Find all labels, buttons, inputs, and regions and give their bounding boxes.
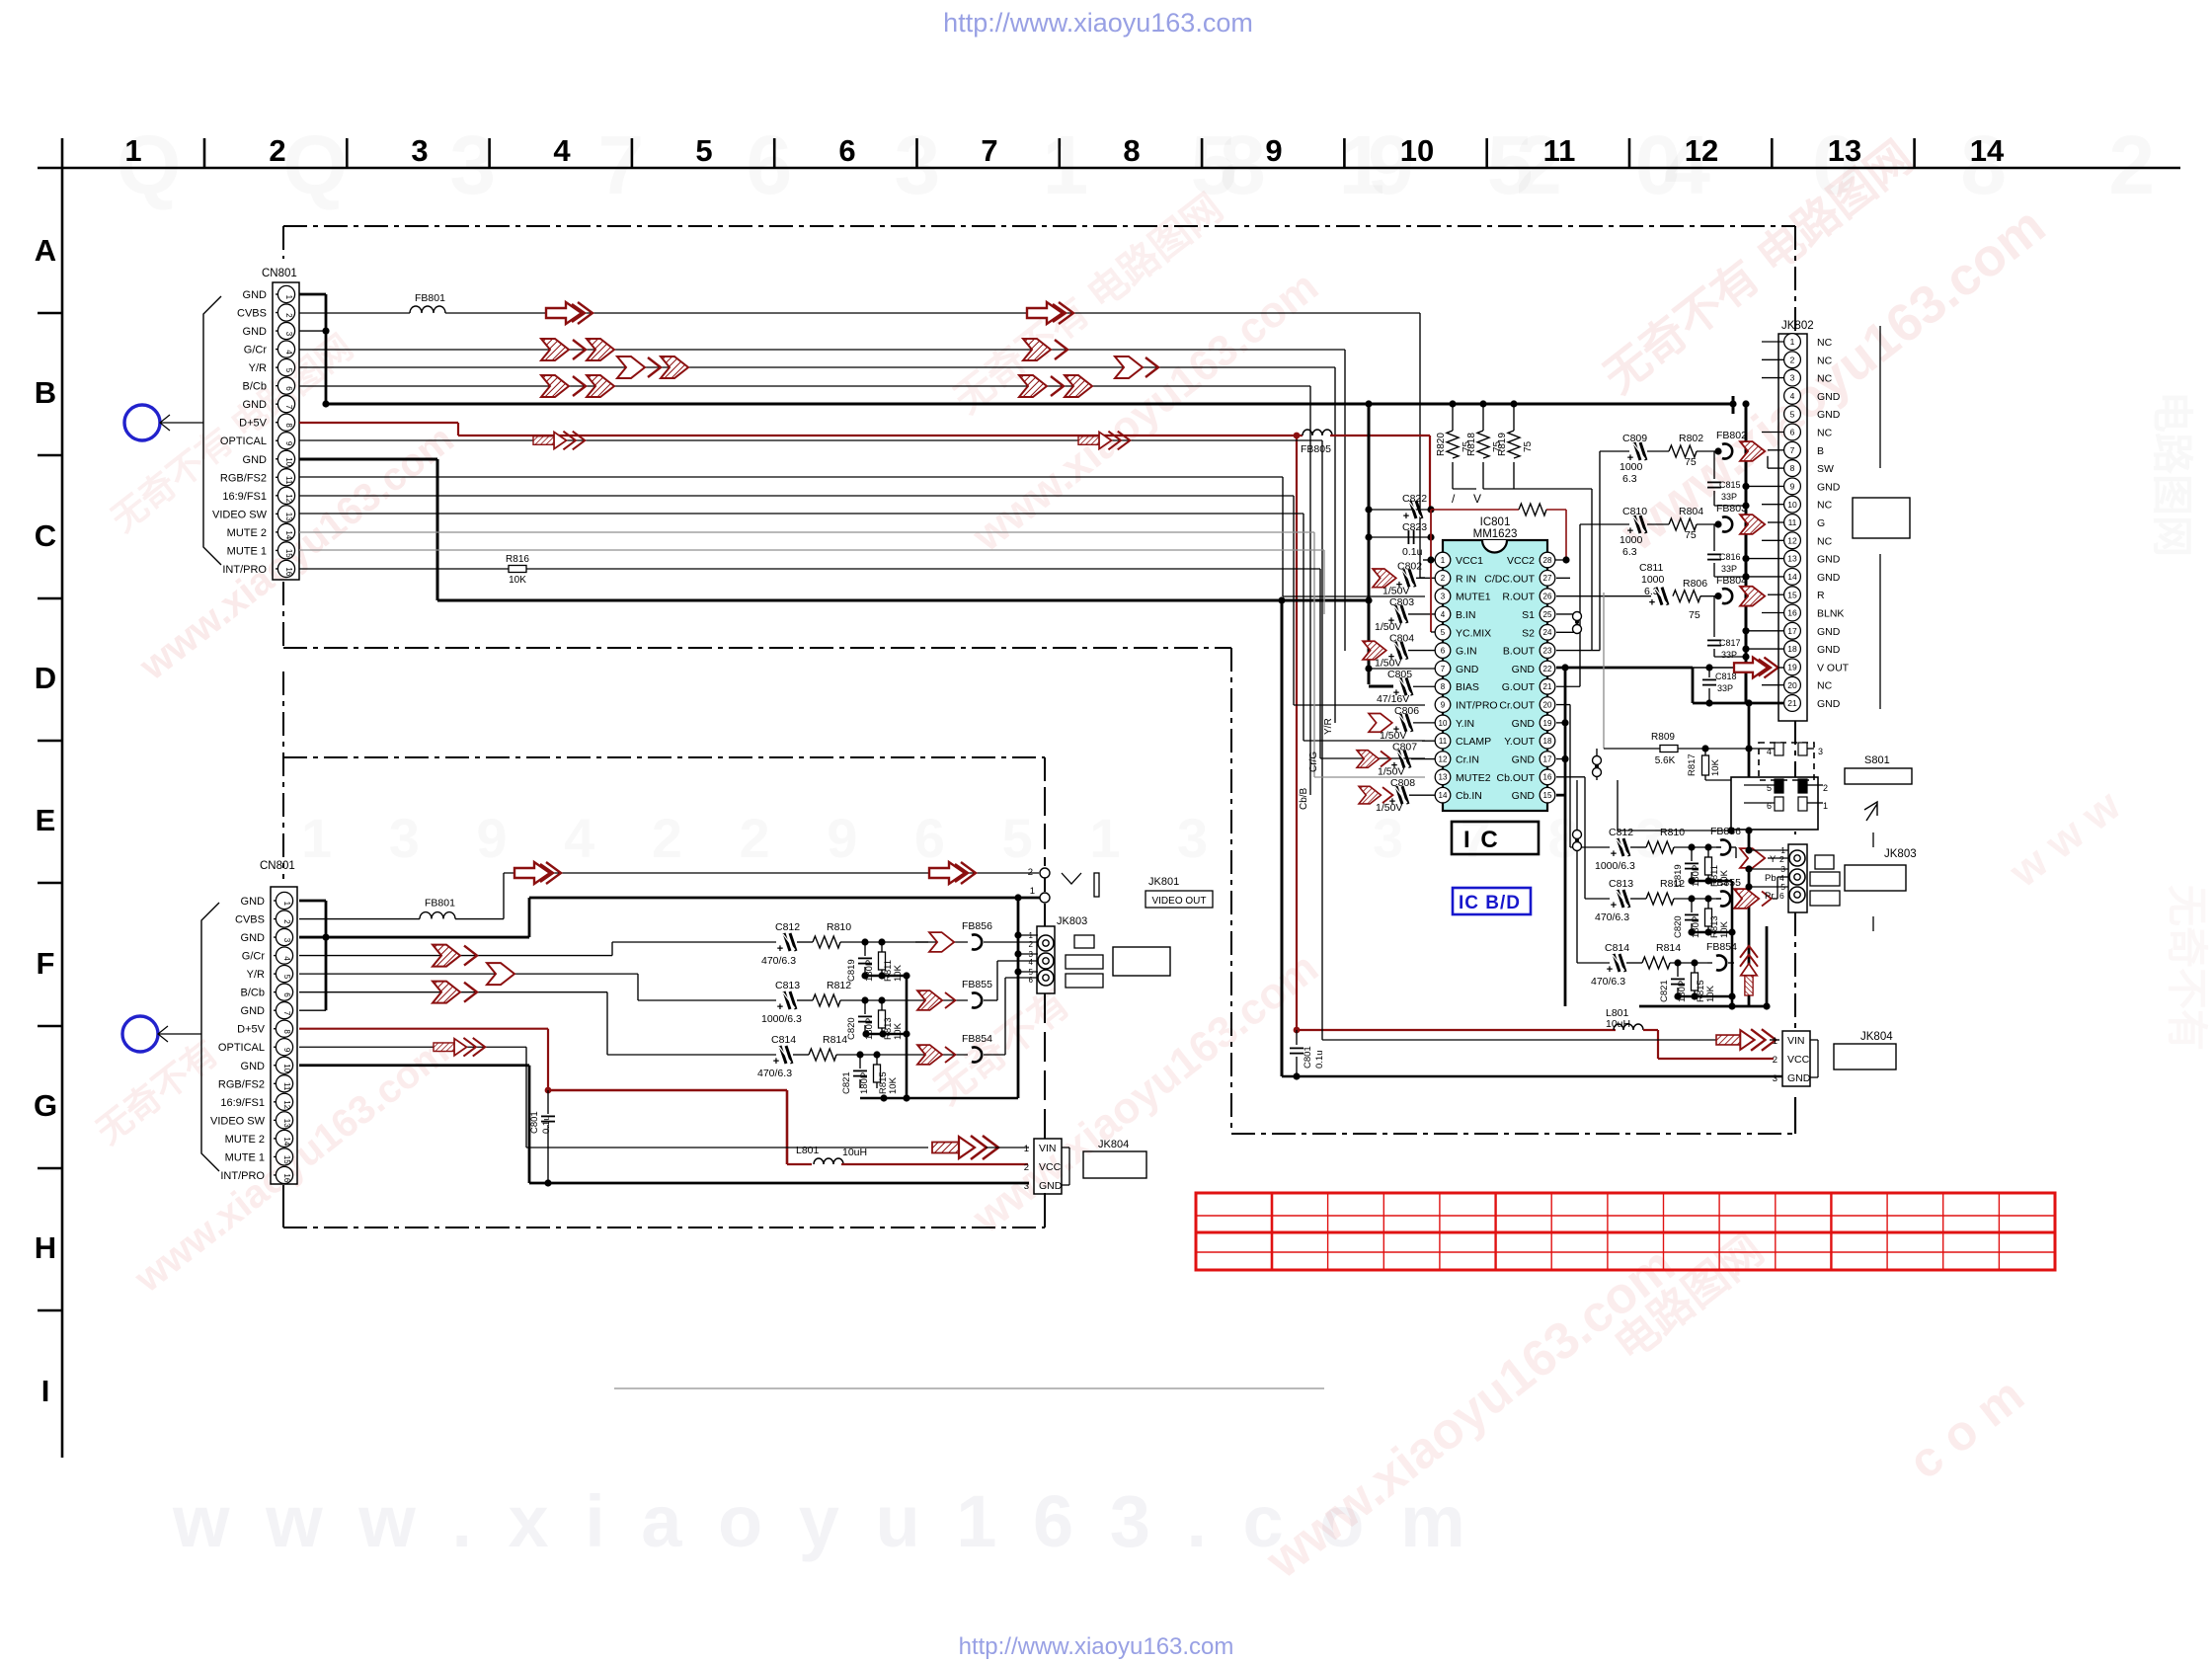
svg-text:1: 1	[1441, 556, 1446, 565]
svg-text:GND: GND	[243, 289, 268, 301]
svg-text:GND: GND	[1817, 409, 1841, 421]
svg-text:BLNK: BLNK	[1817, 608, 1844, 620]
svg-text:16: 16	[1543, 773, 1552, 782]
svg-text:C813: C813	[775, 980, 800, 991]
svg-text:10K: 10K	[893, 964, 904, 982]
svg-text:GND: GND	[1817, 481, 1841, 493]
svg-text:GND: GND	[243, 399, 268, 411]
svg-text:C812: C812	[775, 921, 800, 933]
svg-text:6: 6	[282, 992, 291, 997]
svg-text:6: 6	[1790, 428, 1795, 437]
svg-text:E: E	[36, 803, 56, 837]
svg-text:+: +	[777, 1001, 783, 1013]
svg-text:75: 75	[1685, 529, 1697, 541]
svg-text:MUTE 2: MUTE 2	[227, 527, 267, 539]
svg-text:GND: GND	[1039, 1180, 1063, 1192]
svg-text:C819: C819	[846, 959, 857, 982]
svg-text:R IN: R IN	[1456, 573, 1476, 585]
svg-text:10K: 10K	[888, 1076, 899, 1094]
svg-text:G.IN: G.IN	[1456, 646, 1477, 658]
svg-text:1: 1	[1790, 337, 1795, 347]
svg-text:470/6.3: 470/6.3	[1595, 911, 1629, 923]
svg-text:GND: GND	[241, 896, 266, 908]
svg-text:C816: C816	[1719, 552, 1741, 562]
svg-text:S1: S1	[1522, 609, 1535, 621]
svg-text:14: 14	[1787, 572, 1797, 582]
svg-text:NC: NC	[1817, 355, 1833, 366]
svg-text:3: 3	[1441, 593, 1446, 601]
svg-text:2: 2	[1779, 854, 1784, 864]
svg-text:18: 18	[1543, 737, 1552, 746]
svg-text:1/50V: 1/50V	[1378, 766, 1404, 778]
svg-text:I: I	[41, 1374, 50, 1408]
svg-text:C821: C821	[841, 1071, 852, 1094]
svg-text:C801: C801	[529, 1111, 540, 1134]
svg-text:CN801: CN801	[260, 860, 295, 872]
svg-text:G/Cr: G/Cr	[242, 951, 266, 963]
svg-text:1/50V: 1/50V	[1375, 658, 1401, 670]
svg-text:GND: GND	[1817, 626, 1841, 638]
svg-text:21: 21	[1787, 698, 1797, 708]
svg-text:33P: 33P	[1717, 683, 1733, 693]
svg-text:16:9/FS1: 16:9/FS1	[222, 491, 267, 503]
svg-text:10uH: 10uH	[1606, 1018, 1630, 1030]
svg-text:10K: 10K	[893, 1022, 904, 1040]
svg-text:C814: C814	[1605, 942, 1629, 954]
svg-text:D+5V: D+5V	[237, 1024, 265, 1036]
svg-text:2: 2	[1773, 1055, 1777, 1066]
svg-text:R804: R804	[1679, 506, 1703, 517]
svg-text:8: 8	[284, 423, 293, 428]
svg-text:13: 13	[1439, 773, 1448, 782]
svg-text:GND: GND	[1787, 1072, 1811, 1084]
svg-text:3: 3	[1790, 373, 1795, 383]
svg-text:R809: R809	[1651, 732, 1675, 743]
svg-text:GND: GND	[1512, 790, 1536, 802]
svg-text:+: +	[773, 1056, 779, 1068]
svg-text:A: A	[35, 233, 56, 268]
svg-text:NC: NC	[1817, 373, 1833, 385]
svg-text:R820: R820	[1436, 433, 1447, 456]
svg-text:20: 20	[1787, 680, 1797, 690]
svg-text:+: +	[1607, 964, 1613, 976]
svg-text:1: 1	[282, 902, 291, 907]
svg-text:15: 15	[1787, 590, 1797, 599]
svg-text:2: 2	[282, 919, 291, 924]
svg-text:L801: L801	[796, 1145, 820, 1156]
svg-text:Cr.IN: Cr.IN	[1456, 754, 1479, 766]
svg-text:FB856: FB856	[962, 920, 992, 932]
svg-text:0.1u: 0.1u	[1314, 1051, 1325, 1069]
svg-text:http://www.xiaoyu163.com: http://www.xiaoyu163.com	[943, 8, 1253, 38]
svg-text:电路图网: 电路图网	[2149, 391, 2195, 557]
svg-text:6: 6	[284, 386, 293, 391]
svg-text:470/6.3: 470/6.3	[757, 1068, 792, 1079]
svg-text:15: 15	[282, 1155, 291, 1164]
svg-text:VIDEO OUT: VIDEO OUT	[1151, 896, 1206, 907]
svg-text:G.OUT: G.OUT	[1502, 681, 1536, 693]
svg-text:C801: C801	[1303, 1046, 1313, 1069]
svg-text:S2: S2	[1522, 627, 1535, 639]
svg-text:10: 10	[284, 457, 293, 466]
svg-text:1: 1	[1030, 886, 1035, 897]
svg-text:R806: R806	[1683, 578, 1707, 590]
svg-text:1000: 1000	[1619, 534, 1643, 546]
svg-text:NC: NC	[1817, 680, 1833, 692]
svg-text:24: 24	[1543, 628, 1552, 637]
svg-text:GND: GND	[1817, 698, 1841, 710]
svg-text:10: 10	[1787, 500, 1797, 510]
svg-text:BIAS: BIAS	[1456, 681, 1479, 693]
svg-text:NC: NC	[1817, 337, 1833, 349]
svg-text:33P: 33P	[1721, 650, 1737, 660]
svg-text:6: 6	[1779, 891, 1784, 901]
svg-text:B.OUT: B.OUT	[1503, 646, 1536, 658]
svg-text:1: 1	[1773, 1036, 1777, 1047]
svg-text:1: 1	[284, 295, 293, 300]
svg-text:10: 10	[1400, 133, 1434, 168]
svg-text:1: 1	[124, 133, 141, 168]
svg-text:VIDEO SW: VIDEO SW	[212, 509, 268, 520]
svg-text:Y/R: Y/R	[249, 362, 267, 374]
svg-text:9: 9	[1790, 481, 1795, 491]
svg-text:5: 5	[1790, 409, 1795, 419]
svg-text:C823: C823	[1402, 521, 1427, 533]
svg-text:GND: GND	[243, 326, 268, 338]
svg-text:MUTE 1: MUTE 1	[227, 545, 267, 557]
svg-text:6.3: 6.3	[1622, 546, 1637, 558]
svg-text:Pr: Pr	[1765, 891, 1775, 902]
svg-text:25: 25	[1543, 610, 1552, 619]
svg-text:B/Cb: B/Cb	[241, 988, 265, 999]
svg-text:4: 4	[1790, 391, 1795, 401]
svg-text:16: 16	[282, 1173, 291, 1182]
svg-text:1 3 9 4 2 2 9 6 5 1 3: 1 3 9 4 2 2 9 6 5 1 3	[301, 807, 1228, 869]
svg-text:SW: SW	[1817, 463, 1834, 475]
svg-text:GND: GND	[241, 932, 266, 944]
svg-text:C814: C814	[771, 1034, 796, 1046]
svg-text:GND: GND	[1817, 644, 1841, 656]
svg-text:INT/PRO: INT/PRO	[222, 564, 267, 576]
svg-text:R814: R814	[823, 1034, 847, 1046]
svg-text:VCC1: VCC1	[1456, 555, 1483, 567]
svg-text:1: 1	[1029, 931, 1034, 940]
svg-text:D+5V: D+5V	[239, 418, 267, 430]
svg-text:15: 15	[284, 549, 293, 558]
svg-text:28: 28	[1543, 556, 1552, 565]
svg-text:+: +	[1611, 848, 1617, 860]
svg-text:1000: 1000	[1641, 574, 1665, 586]
svg-text:R.OUT: R.OUT	[1502, 592, 1535, 603]
svg-text:4: 4	[282, 956, 291, 961]
svg-text:33P: 33P	[1721, 492, 1737, 502]
svg-text:10K: 10K	[509, 575, 526, 586]
svg-text:R812: R812	[1660, 878, 1685, 890]
svg-text:6: 6	[1441, 646, 1446, 655]
svg-text:JK804: JK804	[1860, 1031, 1893, 1043]
svg-text:无奇不有: 无奇不有	[2164, 885, 2210, 1051]
svg-text:17: 17	[1543, 754, 1552, 763]
svg-text:2: 2	[1441, 574, 1446, 583]
svg-text:10K: 10K	[1719, 920, 1730, 938]
svg-text:V OUT: V OUT	[1817, 662, 1850, 673]
svg-text:B/Cb: B/Cb	[243, 381, 267, 393]
svg-text:19: 19	[1543, 719, 1552, 728]
svg-text:12: 12	[284, 494, 293, 503]
svg-text:11: 11	[284, 476, 293, 485]
svg-text:OPTICAL: OPTICAL	[218, 1042, 265, 1054]
svg-text:R816: R816	[506, 554, 529, 565]
svg-text:75: 75	[1685, 456, 1697, 468]
svg-text:14: 14	[1439, 791, 1448, 800]
svg-text:RGB/FS2: RGB/FS2	[218, 1078, 265, 1090]
svg-text:1/50V: 1/50V	[1375, 621, 1401, 633]
svg-text:Cr/G: Cr/G	[1308, 752, 1319, 772]
svg-text:2: 2	[269, 133, 285, 168]
svg-text:9: 9	[1265, 133, 1282, 168]
svg-text:B: B	[1817, 445, 1824, 457]
svg-text:G: G	[1817, 517, 1825, 529]
svg-text:VIDEO SW: VIDEO SW	[210, 1115, 266, 1127]
svg-text:11: 11	[1788, 517, 1797, 527]
svg-text:9: 9	[1441, 700, 1446, 709]
svg-text:14: 14	[282, 1137, 291, 1146]
svg-text:5.6K: 5.6K	[1655, 755, 1676, 766]
svg-text:FB804: FB804	[1716, 575, 1747, 587]
svg-text:1000/6.3: 1000/6.3	[1595, 860, 1635, 872]
svg-text:13: 13	[1828, 133, 1861, 168]
svg-text:GND: GND	[1512, 754, 1536, 766]
svg-text:5: 5	[695, 133, 712, 168]
svg-text:1000/6.3: 1000/6.3	[761, 1013, 802, 1025]
svg-text:8: 8	[1123, 133, 1140, 168]
svg-text:VCC: VCC	[1787, 1054, 1810, 1066]
svg-text:FB856: FB856	[1710, 826, 1741, 837]
svg-text:2: 2	[1024, 1162, 1029, 1173]
svg-text:33P: 33P	[1721, 564, 1737, 574]
svg-text:13: 13	[1787, 554, 1797, 564]
svg-text:MUTE1: MUTE1	[1456, 592, 1491, 603]
svg-text:GND: GND	[1512, 718, 1536, 730]
svg-text:16: 16	[1787, 608, 1797, 618]
svg-text:H: H	[35, 1230, 56, 1265]
svg-text:R814: R814	[1656, 942, 1681, 954]
svg-text:27: 27	[1543, 574, 1552, 583]
svg-text:1/50V: 1/50V	[1382, 585, 1409, 596]
svg-text:C822: C822	[1402, 493, 1427, 505]
svg-text:6.3: 6.3	[1622, 473, 1637, 485]
svg-text:R817: R817	[1687, 753, 1698, 776]
svg-text:16: 16	[284, 567, 293, 576]
svg-text:15: 15	[1543, 791, 1552, 800]
svg-text:F: F	[37, 946, 55, 981]
svg-text:GND: GND	[1817, 391, 1841, 403]
svg-text:FB855: FB855	[1710, 877, 1741, 889]
svg-text:http://www.xiaoyu163.com: http://www.xiaoyu163.com	[959, 1633, 1234, 1660]
svg-text:S801: S801	[1864, 754, 1890, 766]
svg-text:RGB/FS2: RGB/FS2	[220, 472, 267, 484]
svg-text:3: 3	[411, 133, 428, 168]
svg-text:470/6.3: 470/6.3	[761, 955, 796, 967]
svg-text:NC: NC	[1817, 535, 1833, 547]
svg-text:22: 22	[1543, 665, 1552, 673]
svg-text:10: 10	[1439, 719, 1448, 728]
svg-text:YC.MIX: YC.MIX	[1456, 627, 1491, 639]
svg-text:8: 8	[282, 1029, 291, 1034]
svg-text:2: 2	[284, 313, 293, 318]
svg-text:Pb: Pb	[1765, 873, 1777, 884]
svg-text:CN801: CN801	[262, 268, 297, 279]
svg-text:11: 11	[1439, 737, 1448, 746]
svg-text:NC: NC	[1817, 428, 1833, 439]
svg-text:0.1u: 0.1u	[1402, 546, 1423, 558]
svg-text:D: D	[35, 661, 56, 695]
svg-text:16:9/FS1: 16:9/FS1	[220, 1097, 265, 1109]
svg-text:MUTE 1: MUTE 1	[225, 1151, 265, 1163]
svg-text:FB854: FB854	[962, 1033, 992, 1045]
svg-text:JK803: JK803	[1884, 848, 1917, 860]
svg-text:GND: GND	[1817, 554, 1841, 566]
svg-text:Y.OUT: Y.OUT	[1504, 736, 1535, 748]
svg-text:JK801: JK801	[1148, 876, 1179, 888]
svg-text:13: 13	[284, 513, 293, 521]
svg-text:VIN: VIN	[1787, 1035, 1805, 1047]
svg-text:VCC: VCC	[1039, 1161, 1062, 1173]
svg-text:+: +	[777, 943, 783, 955]
svg-text:7: 7	[1441, 665, 1446, 673]
svg-text:11: 11	[282, 1082, 291, 1091]
svg-text:C820: C820	[1673, 915, 1684, 938]
svg-text:CVBS: CVBS	[237, 308, 267, 320]
svg-text:GND: GND	[1512, 664, 1536, 675]
svg-text:12: 12	[282, 1100, 291, 1109]
svg-text:3: 3	[1773, 1073, 1777, 1084]
svg-text:7: 7	[1790, 445, 1795, 455]
svg-text:C811: C811	[1639, 562, 1663, 574]
svg-text:10K: 10K	[1705, 985, 1716, 1002]
svg-text:12: 12	[1439, 754, 1448, 763]
svg-text:3: 3	[1024, 1181, 1029, 1192]
svg-text:+: +	[1649, 597, 1655, 609]
svg-text:2: 2	[1823, 783, 1828, 793]
svg-text:FB801: FB801	[425, 898, 455, 910]
svg-text:21: 21	[1543, 682, 1552, 691]
svg-text:7: 7	[981, 133, 997, 168]
svg-text:CLAMP: CLAMP	[1456, 736, 1491, 748]
svg-text:47/16V: 47/16V	[1377, 693, 1409, 705]
svg-text:R810: R810	[1660, 827, 1685, 838]
svg-text:6: 6	[838, 133, 855, 168]
svg-text:C813: C813	[1609, 878, 1633, 890]
svg-text:2: 2	[1790, 355, 1795, 364]
svg-text:75: 75	[1689, 609, 1700, 621]
svg-text:INT/PRO: INT/PRO	[1456, 700, 1498, 712]
svg-text:5: 5	[284, 368, 293, 373]
svg-text:1/50V: 1/50V	[1380, 730, 1406, 742]
svg-text:C812: C812	[1609, 827, 1633, 838]
svg-text:19: 19	[1787, 662, 1797, 672]
svg-text:17: 17	[1787, 626, 1797, 636]
svg-text:3: 3	[282, 938, 291, 943]
svg-text:23: 23	[1543, 646, 1552, 655]
svg-text:INT/PRO: INT/PRO	[220, 1170, 265, 1182]
svg-text:FB802: FB802	[1716, 430, 1747, 441]
svg-text:IC B/D: IC B/D	[1459, 893, 1521, 913]
svg-text:13: 13	[282, 1119, 291, 1128]
svg-text:Cb/B: Cb/B	[1299, 787, 1309, 810]
svg-text:R802: R802	[1679, 433, 1703, 444]
svg-text:12: 12	[1787, 535, 1797, 545]
svg-text:GND: GND	[241, 1061, 266, 1072]
svg-text:Cb.OUT: Cb.OUT	[1496, 772, 1535, 784]
svg-text:10K: 10K	[1710, 758, 1721, 776]
svg-text:FB803: FB803	[1716, 503, 1747, 515]
svg-text:FB801: FB801	[415, 292, 445, 304]
svg-text:GND: GND	[243, 454, 268, 466]
svg-text:JK802: JK802	[1781, 320, 1814, 332]
svg-text:20: 20	[1543, 700, 1552, 709]
svg-text:2: 2	[1028, 867, 1033, 878]
svg-text:1/50V: 1/50V	[1376, 802, 1402, 814]
svg-text:8: 8	[1441, 682, 1446, 691]
svg-text:11: 11	[1543, 133, 1576, 168]
svg-text:1000: 1000	[1619, 461, 1643, 473]
svg-text:Y/R: Y/R	[1323, 718, 1334, 735]
svg-text:V: V	[1473, 492, 1481, 506]
svg-text:12: 12	[1685, 133, 1718, 168]
svg-text:C/DC.OUT: C/DC.OUT	[1484, 573, 1535, 585]
svg-text:1: 1	[1024, 1144, 1029, 1154]
svg-text:IC801: IC801	[1480, 516, 1511, 528]
svg-text:4: 4	[553, 133, 571, 168]
svg-text:C818: C818	[1715, 672, 1737, 681]
svg-text:OPTICAL: OPTICAL	[220, 436, 267, 447]
svg-text:75: 75	[1523, 440, 1534, 452]
svg-text:FB805: FB805	[1301, 443, 1331, 455]
svg-text:C817: C817	[1719, 638, 1741, 648]
svg-text:5: 5	[1441, 628, 1446, 637]
svg-text:G/Cr: G/Cr	[244, 345, 268, 356]
svg-text:GND: GND	[1456, 664, 1479, 675]
svg-text:Y.IN: Y.IN	[1456, 718, 1474, 730]
svg-text:NC: NC	[1817, 500, 1833, 512]
svg-text:R: R	[1817, 590, 1825, 601]
svg-text:Cr.OUT: Cr.OUT	[1499, 700, 1535, 712]
svg-text:+: +	[1611, 900, 1617, 911]
svg-text:5: 5	[282, 975, 291, 980]
svg-text:26: 26	[1543, 593, 1552, 601]
svg-text:MUTE 2: MUTE 2	[225, 1134, 265, 1146]
svg-text:Cb.IN: Cb.IN	[1456, 790, 1482, 802]
svg-text:Y/R: Y/R	[247, 969, 265, 981]
svg-text:9: 9	[282, 1048, 291, 1053]
svg-text:C: C	[35, 518, 56, 553]
svg-text:MM1623: MM1623	[1473, 528, 1518, 540]
svg-text:3: 3	[284, 332, 293, 337]
svg-text:4: 4	[1029, 958, 1034, 967]
svg-text:0.1u: 0.1u	[541, 1116, 552, 1135]
svg-text:R818: R818	[1466, 433, 1477, 456]
svg-text:6: 6	[1029, 976, 1034, 985]
svg-text:JK803: JK803	[1057, 915, 1087, 927]
svg-text:CVBS: CVBS	[235, 914, 265, 926]
svg-text:10uH: 10uH	[842, 1147, 867, 1158]
svg-text:FB855: FB855	[962, 979, 992, 990]
svg-text:VIN: VIN	[1039, 1143, 1057, 1154]
svg-text:C821: C821	[1659, 980, 1670, 1002]
svg-text:14: 14	[1970, 133, 2005, 168]
svg-text:1: 1	[1823, 801, 1828, 811]
